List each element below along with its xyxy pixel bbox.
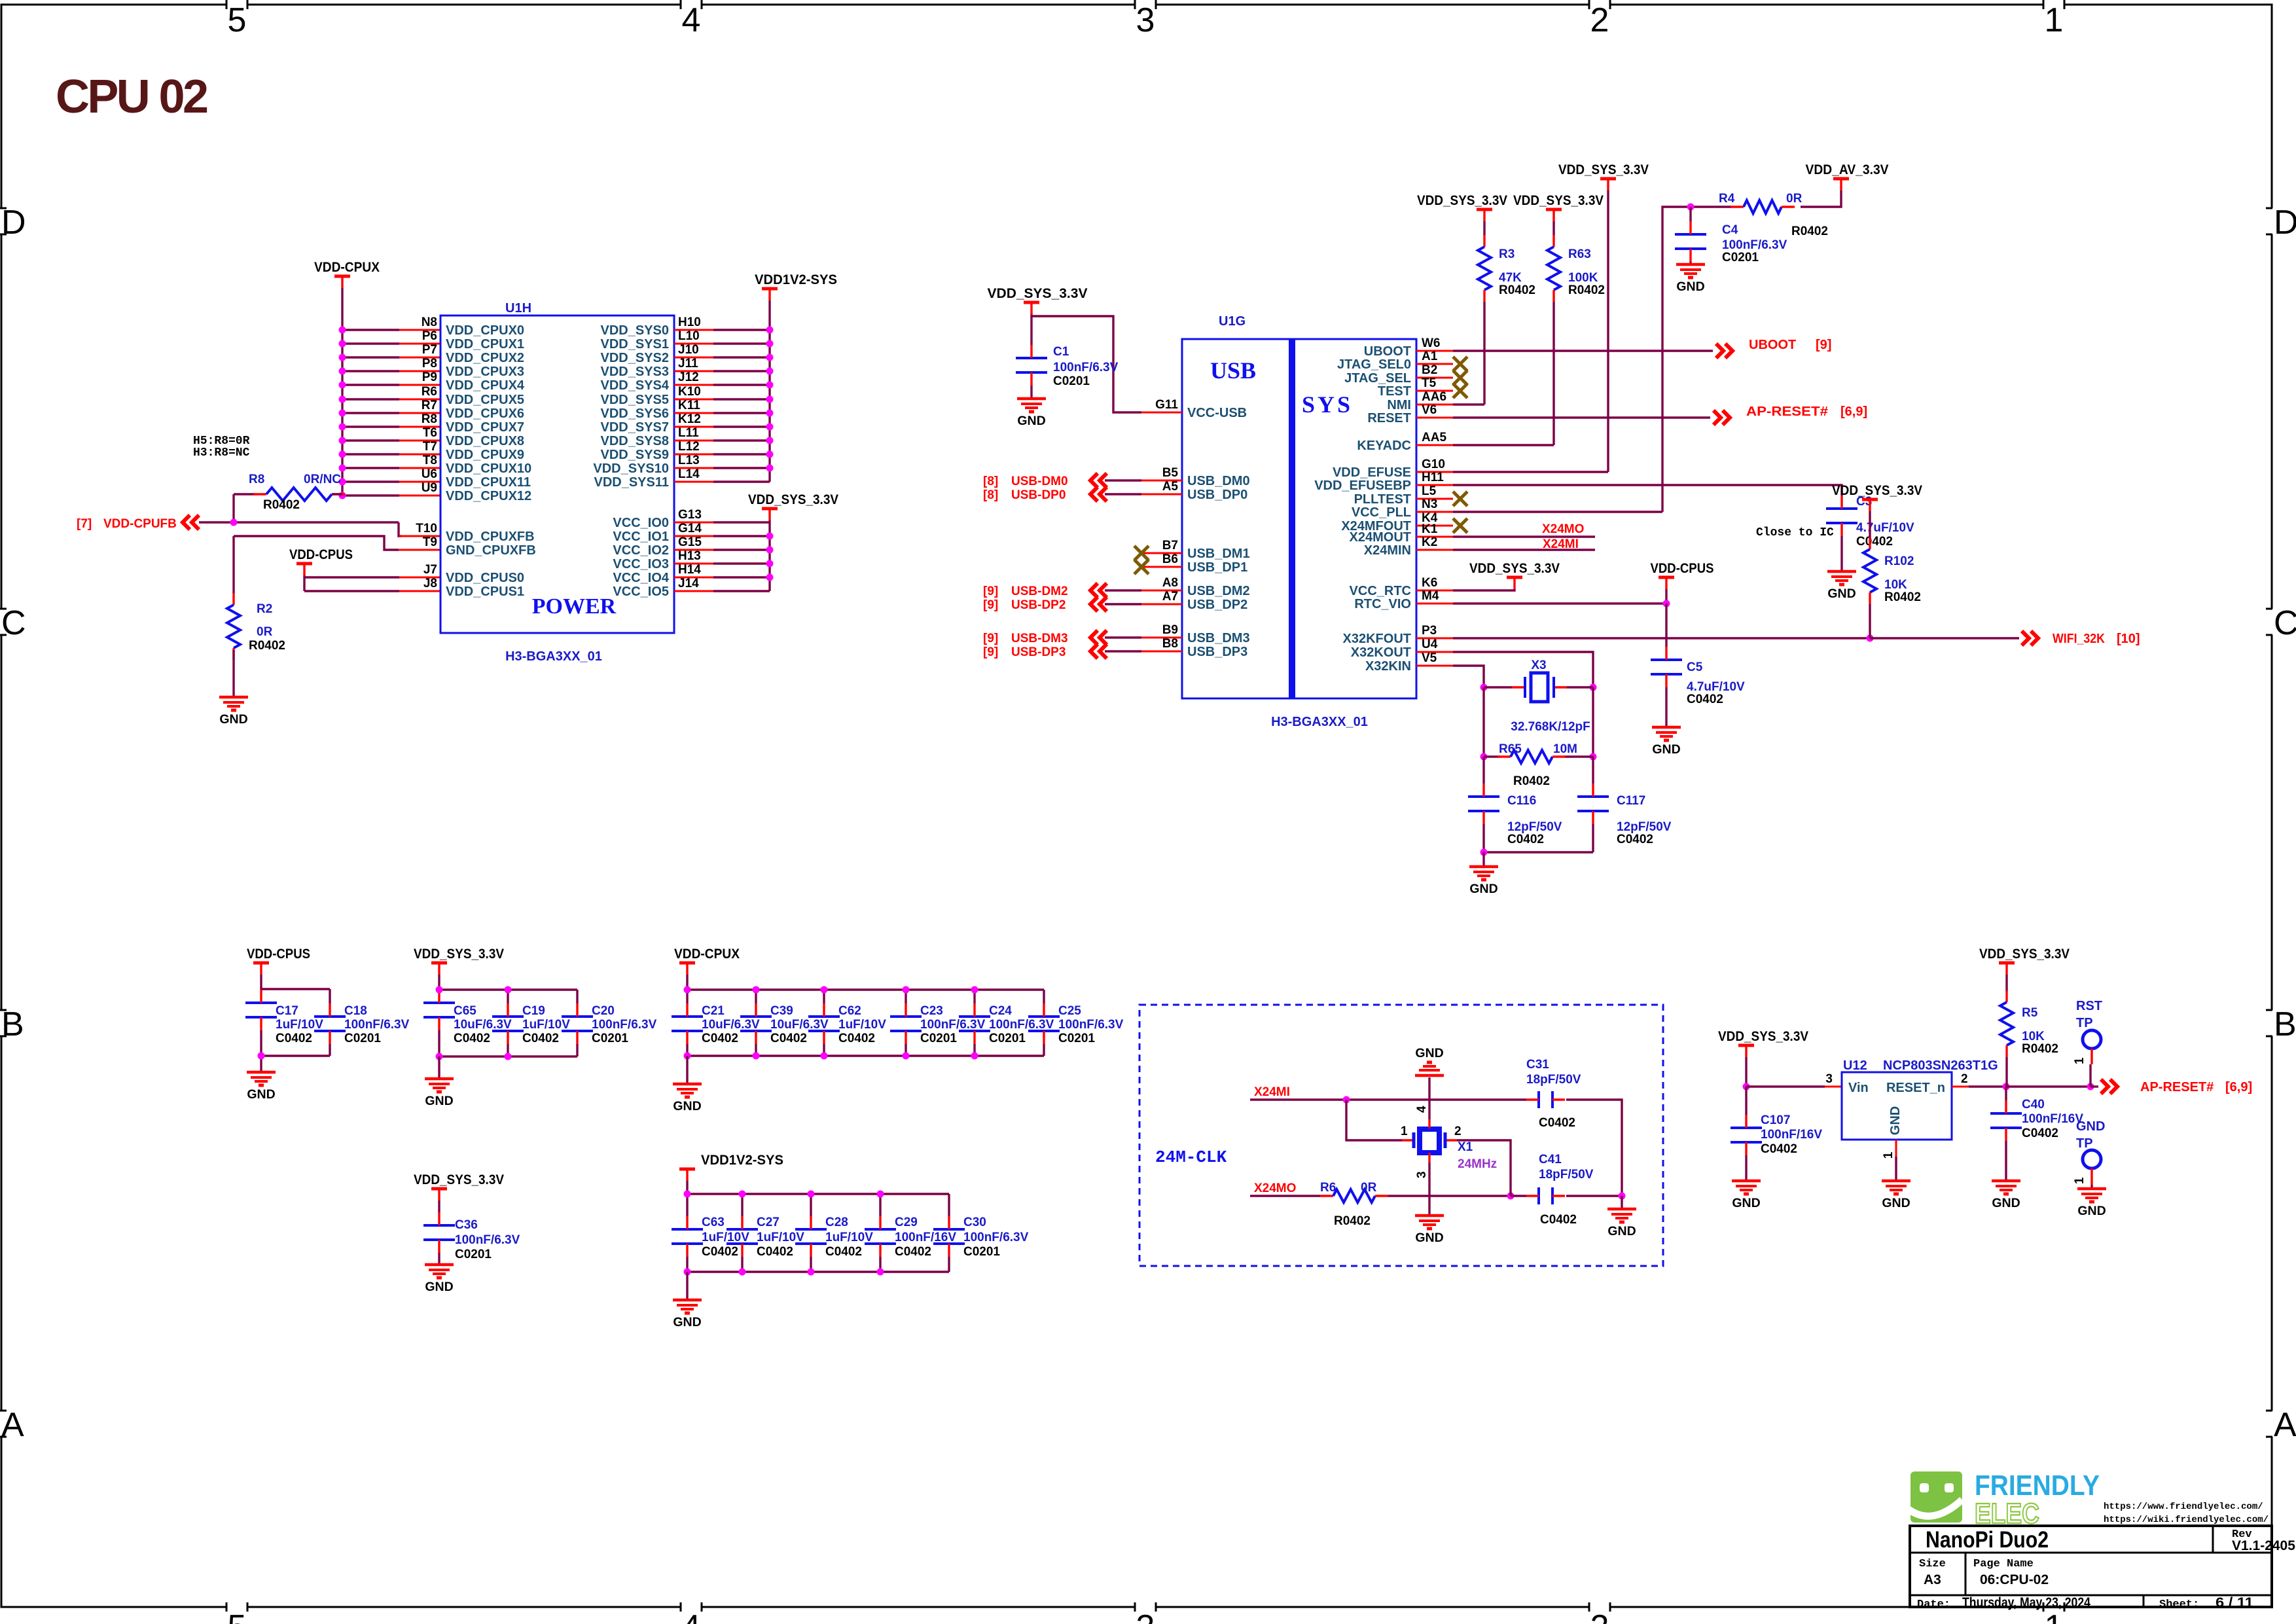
svg-text:AP-RESET#: AP-RESET# — [1746, 405, 1828, 419]
capacitor C18 — [314, 1003, 410, 1045]
svg-text:VDD1V2-SYS: VDD1V2-SYS — [755, 272, 837, 287]
svg-text:GND: GND — [1469, 882, 1498, 896]
svg-text:R0402: R0402 — [1568, 283, 1605, 297]
pin stub L11 — [674, 440, 713, 442]
wire — [2006, 1085, 2090, 1087]
wire — [2005, 1087, 2007, 1100]
pin stub V6 — [1416, 417, 1453, 419]
svg-text:VDD_CPUX0: VDD_CPUX0 — [446, 323, 524, 338]
junction R65 right — [1590, 753, 1597, 761]
no-connect A1 — [1453, 357, 1467, 371]
svg-text:C0402: C0402 — [1507, 833, 1544, 846]
wire — [1745, 1087, 1747, 1115]
capacitor C4 — [1675, 221, 1787, 264]
wire — [905, 990, 906, 1003]
svg-text:C39: C39 — [770, 1004, 793, 1018]
svg-text:VCC_IO4: VCC_IO4 — [613, 571, 669, 585]
ground (C36) — [425, 1265, 454, 1294]
svg-text:GND: GND — [219, 712, 247, 727]
svg-text:GND: GND — [425, 1280, 453, 1294]
pin stub J11 — [674, 370, 713, 372]
resistor R102 — [1863, 537, 1921, 604]
capacitor C20 — [562, 1003, 657, 1045]
svg-text:VDD-CPUS: VDD-CPUS — [247, 947, 310, 962]
svg-text:SYS: SYS — [1302, 391, 1353, 418]
wire — [713, 398, 770, 400]
svg-text:USB-DP2: USB-DP2 — [1011, 598, 1066, 612]
svg-text:GND: GND — [1676, 280, 1704, 294]
wire — [2005, 1057, 2007, 1087]
svg-text:C0201: C0201 — [344, 1032, 381, 1045]
wire — [232, 494, 234, 522]
svg-text:100nF/6.3V: 100nF/6.3V — [963, 1231, 1029, 1244]
wire — [342, 439, 399, 441]
svg-text:C0402: C0402 — [1617, 833, 1653, 846]
pin stub — [399, 495, 440, 497]
pin stub — [399, 426, 440, 428]
wire — [342, 398, 399, 400]
power symbol VDD-CPUX (C21 bank) — [674, 947, 740, 975]
svg-text:10K: 10K — [1884, 578, 1907, 592]
svg-text:10K: 10K — [2022, 1030, 2045, 1043]
svg-text:C0201: C0201 — [1053, 374, 1090, 388]
capacitor C62 — [808, 1003, 886, 1045]
svg-text:0R/NC: 0R/NC — [304, 473, 341, 486]
svg-text:VCC_IO2: VCC_IO2 — [613, 543, 669, 558]
grid column label 3 bottom — [1135, 1602, 1156, 1624]
svg-text:C0402: C0402 — [1540, 1213, 1577, 1227]
svg-text:C4: C4 — [1722, 223, 1738, 237]
capacitor C28 — [795, 1216, 873, 1259]
pin stub U12.1 — [1895, 1140, 1897, 1157]
wire — [1043, 1044, 1045, 1056]
svg-text:VDD_SYS_3.3V: VDD_SYS_3.3V — [988, 286, 1088, 301]
wire — [1895, 1157, 1897, 1181]
junction RTC_VIO — [1663, 600, 1670, 607]
svg-text:K11: K11 — [678, 399, 700, 412]
wire — [1428, 1163, 1430, 1216]
svg-text:K1: K1 — [1422, 522, 1438, 536]
resistor R2 — [227, 593, 240, 660]
svg-text:https://wiki.friendlyelec.com/: https://wiki.friendlyelec.com/ — [2104, 1515, 2269, 1525]
svg-text:10M: 10M — [1553, 742, 1577, 756]
wire — [438, 1030, 440, 1056]
power symbol VDD_SYS_3.3V (VDD_EFUSE) — [1558, 162, 1649, 190]
svg-text:C0402: C0402 — [276, 1032, 312, 1045]
wire — [232, 650, 234, 697]
svg-text:H11: H11 — [1422, 471, 1444, 484]
svg-text:C40: C40 — [2022, 1098, 2045, 1111]
resistor R8 0R/NC — [253, 488, 345, 501]
power symbol VDD_SYS_3.3V (C36) — [414, 1172, 504, 1200]
svg-text:VDD_CPUS0: VDD_CPUS0 — [446, 571, 524, 585]
wire — [810, 1257, 812, 1272]
pin stub N3 — [1416, 511, 1453, 513]
ground (C1) — [1017, 399, 1046, 428]
svg-text:[9]: [9] — [983, 598, 998, 612]
capacitor C3 — [1826, 495, 1914, 549]
power symbol VDD_SYS_3.3V (C65 bank) — [414, 947, 504, 975]
wire — [1607, 190, 1609, 472]
svg-text:C36: C36 — [455, 1218, 478, 1232]
pin stub A7 — [1141, 604, 1182, 605]
svg-text:GND: GND — [247, 1087, 275, 1102]
wire — [1105, 493, 1141, 495]
svg-text:J11: J11 — [678, 357, 698, 370]
wire — [713, 590, 770, 592]
svg-text:C0201: C0201 — [963, 1245, 1000, 1259]
junction — [971, 986, 978, 994]
wire — [1453, 602, 1666, 604]
grid column label 4 top — [681, 0, 702, 39]
svg-text:24MHz: 24MHz — [1458, 1157, 1497, 1171]
wire — [1621, 1196, 1623, 1209]
wire X24MI to X1 pin1 — [1346, 1100, 1402, 1140]
ground (C63 bank) — [673, 1300, 702, 1329]
svg-text:C0402: C0402 — [757, 1245, 793, 1259]
pin stub T10 — [399, 535, 440, 537]
svg-text:PLLTEST: PLLTEST — [1354, 492, 1411, 507]
svg-text:U1H: U1H — [505, 301, 531, 316]
capacitor C117 — [1577, 784, 1672, 846]
grid row label D right — [2266, 204, 2296, 242]
svg-text:P8: P8 — [422, 357, 437, 370]
capacitor C30 — [933, 1216, 1029, 1259]
svg-text:1uF/10V: 1uF/10V — [825, 1231, 873, 1244]
svg-text:C31: C31 — [1526, 1058, 1549, 1072]
pin stub AA5 — [1416, 444, 1453, 446]
crystal X3 — [1511, 659, 1590, 734]
svg-text:100nF/6.3V: 100nF/6.3V — [592, 1018, 657, 1032]
junction — [766, 382, 774, 389]
pin stub H14 — [674, 577, 713, 579]
junction — [766, 327, 774, 334]
wire — [329, 1044, 331, 1056]
wire — [342, 494, 399, 496]
off-page connector USB-DP3 — [1090, 644, 1107, 659]
pin stub V5 — [1416, 665, 1453, 667]
wire — [1453, 471, 1608, 473]
svg-text:3: 3 — [1415, 1171, 1429, 1178]
wire — [687, 1193, 949, 1195]
wire — [1453, 350, 1713, 352]
svg-text:VDD_SYS9: VDD_SYS9 — [601, 448, 670, 462]
off-page connector VDD-CPUFB — [183, 515, 199, 530]
wire — [304, 590, 399, 592]
svg-text:A3: A3 — [1924, 1572, 1941, 1587]
svg-text:4: 4 — [682, 1608, 701, 1624]
pin stub B9 — [1141, 637, 1182, 639]
junction — [903, 1053, 910, 1060]
wire — [1592, 757, 1594, 784]
pin stub — [399, 467, 440, 469]
junction R65 left — [1480, 753, 1488, 761]
wire — [1453, 637, 1870, 639]
svg-text:VDD_SYS3: VDD_SYS3 — [601, 365, 670, 379]
svg-text:47K: 47K — [1499, 271, 1522, 285]
wire — [1689, 262, 1691, 264]
pin stub B5 — [1141, 480, 1182, 482]
wire — [260, 1056, 262, 1072]
svg-text:1: 1 — [2073, 1057, 2087, 1064]
pin stub U12.2 — [1952, 1086, 1969, 1088]
svg-text:12pF/50V: 12pF/50V — [1617, 820, 1672, 834]
wire — [199, 521, 399, 523]
wire — [686, 975, 688, 990]
svg-text:Date:: Date: — [1917, 1598, 1950, 1611]
junction — [684, 986, 691, 994]
svg-text:POWER: POWER — [532, 594, 617, 619]
wire — [687, 1271, 949, 1272]
junction — [877, 1269, 884, 1276]
pin stub AA6 — [1416, 404, 1453, 406]
power symbol VDD_SYS_3.3V (C1) — [988, 286, 1088, 314]
svg-text:VDD_EFUSEBP: VDD_EFUSEBP — [1314, 478, 1411, 493]
off-page connector USB-DM2 — [1090, 583, 1107, 598]
capacitor C41 — [1526, 1187, 1565, 1204]
pin stub — [399, 440, 440, 442]
svg-text:T9: T9 — [423, 535, 437, 549]
capacitor C36 — [423, 1212, 520, 1261]
svg-text:C0201: C0201 — [455, 1248, 492, 1261]
pin stub G13 — [674, 522, 713, 524]
U1G USB/SYS divider — [1289, 339, 1295, 698]
wire — [713, 480, 770, 482]
junction — [766, 354, 774, 361]
wire — [713, 329, 770, 331]
svg-text:N8: N8 — [422, 316, 437, 329]
crystal X1 — [1401, 1106, 1462, 1178]
resistor R4 — [1731, 200, 1795, 213]
net label WIFI_32K [10] — [2053, 632, 2140, 646]
power symbol VDD_SYS_3.3V (R5) — [1979, 947, 2070, 975]
wire — [1665, 687, 1667, 727]
svg-text:GND: GND — [1415, 1046, 1443, 1060]
wire — [713, 535, 770, 537]
junction X3 left — [1480, 684, 1488, 691]
svg-text:T6: T6 — [423, 426, 437, 440]
off-page connector USB-DP0 — [1090, 487, 1107, 501]
wire — [1483, 302, 1485, 405]
svg-text:VDD1V2-SYS: VDD1V2-SYS — [701, 1153, 783, 1168]
wire — [1250, 1098, 1526, 1100]
wire — [686, 1272, 688, 1300]
svg-text:C0402: C0402 — [2022, 1127, 2058, 1140]
ground (C21 bank) — [673, 1084, 702, 1113]
pin stub J8 — [399, 590, 440, 592]
svg-text:P7: P7 — [422, 343, 437, 357]
wire — [713, 467, 770, 469]
svg-text:C0402: C0402 — [454, 1032, 490, 1045]
junction — [739, 1191, 746, 1198]
wire — [1482, 852, 1484, 867]
IC block U1H outline — [440, 316, 674, 633]
pin stub — [399, 454, 440, 456]
wire — [304, 576, 399, 578]
wire — [329, 989, 331, 1003]
wire — [1592, 824, 1594, 852]
svg-text:32.768K/12pF: 32.768K/12pF — [1511, 720, 1590, 734]
grid column label 1 top — [2043, 0, 2064, 39]
svg-text:2: 2 — [1454, 1125, 1462, 1138]
pin stub K10 — [674, 399, 713, 401]
svg-text:100nF/16V: 100nF/16V — [2022, 1112, 2083, 1126]
wire — [438, 1253, 440, 1265]
pin stub — [399, 384, 440, 386]
resistor R6 — [1320, 1189, 1388, 1202]
pin stub K2 — [1416, 549, 1453, 551]
svg-text:GND: GND — [1017, 414, 1045, 428]
wire — [879, 1194, 881, 1216]
pin stub T5 — [1416, 390, 1453, 392]
ground (C5) — [1652, 727, 1681, 757]
resistor R3 — [1478, 235, 1535, 302]
wire — [1869, 604, 1871, 638]
svg-text:M4: M4 — [1422, 589, 1439, 603]
svg-text:T7: T7 — [423, 440, 437, 454]
svg-text:[7]: [7] — [77, 517, 92, 531]
wire — [713, 549, 770, 550]
junction C116 gnd — [1480, 849, 1488, 856]
svg-text:C0402: C0402 — [1856, 535, 1893, 549]
svg-text:C25: C25 — [1058, 1004, 1081, 1018]
svg-text:1: 1 — [1882, 1151, 1895, 1159]
svg-text:VDD_SYS7: VDD_SYS7 — [601, 420, 670, 435]
svg-text:100nF/6.3V: 100nF/6.3V — [455, 1233, 520, 1247]
svg-text:C0402: C0402 — [522, 1032, 559, 1045]
capacitor C24 — [959, 1003, 1054, 1045]
svg-text:USB_DP3: USB_DP3 — [1187, 645, 1247, 659]
wire — [439, 1055, 577, 1057]
capacitor C5 — [1651, 647, 1745, 706]
svg-text:A5: A5 — [1162, 480, 1179, 494]
svg-text:A8: A8 — [1162, 576, 1178, 590]
svg-text:USB-DP3: USB-DP3 — [1011, 645, 1066, 659]
svg-text:USB_DM1: USB_DM1 — [1187, 547, 1250, 561]
svg-text:0R: 0R — [1786, 192, 1803, 206]
svg-text:06:CPU-02: 06:CPU-02 — [1980, 1572, 2049, 1587]
svg-text:V6: V6 — [1422, 403, 1437, 417]
svg-text:2: 2 — [1961, 1072, 1968, 1086]
pin stub L10 — [674, 343, 713, 345]
net label USB-DP3 [9] — [983, 645, 1066, 659]
wire — [1250, 1195, 1320, 1197]
wire — [686, 1194, 688, 1216]
svg-text:V5: V5 — [1422, 651, 1437, 665]
pin stub K1 — [1416, 536, 1453, 538]
svg-text:VDD_CPUX9: VDD_CPUX9 — [446, 448, 524, 462]
svg-text:VDD_SYS11: VDD_SYS11 — [594, 475, 669, 490]
svg-text:W6: W6 — [1422, 336, 1441, 350]
svg-text:A: A — [2274, 1406, 2296, 1444]
pin stub H13 — [674, 563, 713, 565]
wire — [1105, 636, 1141, 638]
ground (X1 pin3) — [1415, 1216, 1444, 1245]
svg-text:VDD_CPUX10: VDD_CPUX10 — [446, 461, 531, 476]
wire — [260, 1030, 262, 1056]
svg-text:P3: P3 — [1422, 624, 1437, 638]
svg-text:2: 2 — [1590, 1608, 1609, 1624]
ground (C4) — [1676, 264, 1705, 294]
svg-text:[10]: [10] — [2117, 632, 2140, 646]
svg-text:100nF/6.3V: 100nF/6.3V — [989, 1018, 1054, 1032]
junction RESET_n — [2003, 1083, 2010, 1091]
wire — [438, 975, 440, 990]
capacitor C116 — [1468, 784, 1562, 846]
svg-text:C0402: C0402 — [702, 1032, 738, 1045]
svg-text:B7: B7 — [1162, 539, 1178, 552]
svg-text:VDD_CPUX12: VDD_CPUX12 — [446, 489, 531, 503]
svg-text:VDD-CPUS: VDD-CPUS — [1651, 561, 1714, 576]
wire — [1453, 549, 1595, 550]
svg-text:R6: R6 — [422, 385, 437, 399]
svg-text:R102: R102 — [1884, 554, 1914, 568]
wire — [507, 1044, 509, 1056]
wire — [438, 1056, 440, 1079]
svg-text:R63: R63 — [1568, 247, 1591, 261]
power symbol VDD-CPUS (RTC_VIO) — [1651, 561, 1714, 589]
svg-text:R0402: R0402 — [249, 639, 285, 653]
wire VCC-USB — [1031, 314, 1141, 412]
svg-text:H3:R8=NC: H3:R8=NC — [193, 446, 250, 460]
pin stub L14 — [674, 481, 713, 483]
svg-text:JTAG_SEL: JTAG_SEL — [1344, 371, 1411, 386]
svg-text:USB_DM2: USB_DM2 — [1187, 584, 1250, 598]
svg-text:C28: C28 — [825, 1216, 848, 1229]
svg-text:R7: R7 — [422, 399, 437, 412]
svg-text:C21: C21 — [702, 1004, 725, 1018]
ground (C40) — [1992, 1181, 2020, 1210]
svg-text:6 / 11: 6 / 11 — [2215, 1595, 2253, 1610]
wire — [342, 412, 399, 414]
pin stub K4 — [1416, 525, 1453, 527]
svg-text:VDD-CPUS: VDD-CPUS — [289, 547, 353, 562]
svg-text:C29: C29 — [895, 1216, 918, 1229]
net label USB-DM2 [9] — [983, 585, 1068, 598]
svg-text:C19: C19 — [522, 1004, 545, 1018]
pin stub K11 — [674, 412, 713, 414]
power symbol VDD1V2-SYS — [755, 272, 837, 300]
svg-text:H3-BGA3XX_01: H3-BGA3XX_01 — [505, 649, 602, 664]
junction — [339, 354, 346, 361]
pin stub — [399, 329, 440, 331]
wire — [973, 1044, 975, 1056]
svg-text:C23: C23 — [920, 1004, 943, 1018]
wire — [260, 975, 262, 989]
svg-text:100nF/16V: 100nF/16V — [1761, 1128, 1822, 1142]
wire — [342, 480, 399, 482]
wire — [1453, 535, 1595, 537]
svg-text:VDD_CPUXFB: VDD_CPUXFB — [446, 530, 535, 544]
svg-text:C17: C17 — [276, 1004, 298, 1018]
svg-text:H13: H13 — [678, 549, 701, 563]
svg-text:H14: H14 — [678, 563, 701, 577]
wire C31 right down — [1566, 1100, 1622, 1196]
wire — [810, 1194, 812, 1216]
pin stub T9 — [399, 549, 440, 551]
wire — [342, 356, 399, 358]
wire — [687, 988, 1044, 990]
svg-text:C0201: C0201 — [920, 1032, 957, 1045]
wire — [686, 1257, 688, 1272]
svg-text:C0402: C0402 — [702, 1245, 738, 1259]
wire — [1566, 1195, 1622, 1197]
svg-text:G13: G13 — [678, 508, 702, 522]
svg-text:VDD_SYS4: VDD_SYS4 — [601, 378, 670, 393]
svg-text:X24MIN: X24MIN — [1364, 543, 1411, 558]
wire — [303, 575, 305, 591]
wire — [1105, 479, 1141, 481]
